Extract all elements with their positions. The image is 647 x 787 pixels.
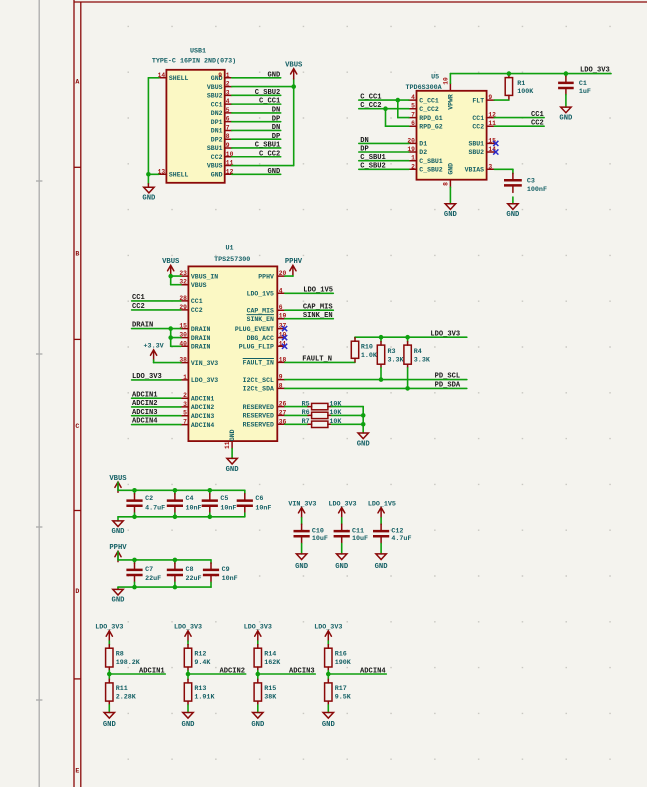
wire VBUS bus top [118,482,245,490]
svg-text:GND: GND [142,194,156,202]
svg-text:D2: D2 [419,149,427,156]
svg-text:DBG_ACC: DBG_ACC [247,335,274,342]
wire net CC1 [132,300,181,302]
wire net ADCIN3 [258,673,316,675]
svg-text:R10: R10 [361,343,373,351]
capacitor C11 10uF [334,518,368,544]
svg-text:GND: GND [447,163,454,175]
svg-text:CC1: CC1 [191,298,203,305]
svg-text:5: 5 [411,103,415,110]
capacitor C3 100nF [504,173,547,194]
wire net FAULT_N [285,361,355,363]
svg-text:10K: 10K [329,400,342,408]
svg-text:4: 4 [411,94,415,101]
svg-text:ADCIN3: ADCIN3 [191,413,215,420]
svg-text:3: 3 [183,401,187,408]
power VBUS cap bank [109,475,127,493]
wire net C_CC1 to U5 [359,99,409,101]
svg-text:C_SBU2: C_SBU2 [360,163,386,171]
svg-text:CC2: CC2 [191,307,203,314]
power VBUS [285,61,303,79]
power PPHV cap bank [109,544,127,562]
junction top bus [173,558,178,563]
wire +3.3V to VIN_3V3 [154,360,181,363]
wire net DN to U5 [359,142,409,144]
svg-text:DP1: DP1 [211,119,223,126]
resistor R4 3.3K [404,337,431,388]
capacitor C5 10nF [202,490,237,517]
svg-text:5: 5 [183,410,187,417]
capacitor C6 10nF [237,490,272,517]
svg-text:C_SBU2: C_SBU2 [419,167,443,174]
svg-text:CC2: CC2 [531,120,544,128]
resistor R13 1.91K [184,674,215,713]
ground GND VBUS bank [112,517,126,536]
svg-text:VIN_3V3: VIN_3V3 [191,360,218,367]
wire pin3 USB1 to net label C_SBU2 [232,94,281,96]
svg-text:SBU1: SBU1 [207,145,223,152]
svg-text:C6: C6 [255,495,263,503]
wire pin1 USB1 to net label GND [232,77,281,79]
svg-text:LDO_3V3: LDO_3V3 [95,624,123,632]
svg-text:CC1: CC1 [472,115,484,122]
svg-text:GND: GND [444,211,458,219]
svg-text:LDO_3V3: LDO_3V3 [244,624,272,632]
wire net ADCIN4 [132,424,181,426]
svg-text:A: A [75,79,79,86]
no-connect PLUG_FLIP [282,344,287,349]
svg-text:1.91K: 1.91K [194,694,215,702]
junction ADCIN4 [326,672,331,677]
svg-text:VBUS: VBUS [162,258,180,266]
svg-text:9: 9 [279,374,283,381]
svg-text:10uF: 10uF [352,535,368,543]
svg-text:VBUS: VBUS [207,84,223,91]
svg-text:R17: R17 [335,685,347,693]
svg-text:TYPE-C 16PIN 2ND(073): TYPE-C 16PIN 2ND(073) [152,58,236,66]
power LDO_3V3 ADCIN3 divider [244,624,272,642]
svg-text:R3: R3 [388,348,396,356]
svg-text:R6: R6 [302,409,310,417]
svg-text:10nF: 10nF [220,505,236,513]
svg-text:LDO_1V5: LDO_1V5 [368,500,396,508]
svg-text:C_CC2: C_CC2 [360,102,381,110]
svg-text:RPD_G1: RPD_G1 [419,115,443,122]
svg-text:10uF: 10uF [312,535,328,543]
wire net C_SBU2 to U5 [359,168,409,170]
svg-text:100nF: 100nF [527,186,547,194]
power PPHV [285,258,303,276]
svg-text:9: 9 [226,142,230,149]
svg-text:C_CC1: C_CC1 [360,94,381,102]
svg-text:R11: R11 [116,685,128,693]
svg-text:CC2: CC2 [132,303,145,311]
svg-text:ADCIN1: ADCIN1 [139,667,165,675]
junction R6 [361,413,366,418]
svg-text:9.5K: 9.5K [335,694,352,702]
svg-text:FLT: FLT [472,97,484,104]
ground GND C10 [295,544,309,571]
svg-text:U1: U1 [225,244,233,252]
svg-text:R15: R15 [264,685,276,693]
svg-text:162K: 162K [264,659,281,667]
svg-text:10nF: 10nF [222,575,238,583]
wire pin9 USB1 to net label C_SBU1 [232,147,281,149]
ground GND USB1 shell [142,184,156,203]
svg-text:10: 10 [443,77,450,85]
wire VPWR to LDO_3V3 rail [450,74,611,84]
svg-text:7: 7 [183,419,187,426]
wire net ADCIN1 [109,673,165,675]
svg-text:2: 2 [226,81,230,88]
wire RPD_G2 tie to C_CC2 [386,109,409,127]
ground GND C12 [375,544,389,571]
capacitor C1 1uF [558,74,591,97]
svg-text:4.7uF: 4.7uF [145,505,165,513]
junction R7 [361,422,366,427]
svg-text:4: 4 [226,98,230,105]
svg-text:PPHV: PPHV [258,273,274,280]
junction top bus [173,488,178,493]
svg-text:6: 6 [279,304,283,311]
svg-text:LDO_1V5: LDO_1V5 [247,291,274,298]
svg-text:2: 2 [411,163,415,170]
svg-text:22uF: 22uF [186,575,202,583]
svg-text:10K: 10K [329,418,342,426]
capacitor C12 4.7uF [373,518,411,544]
svg-text:RESERVED: RESERVED [243,422,274,429]
svg-text:GND: GND [335,563,349,571]
svg-text:C: C [75,423,79,430]
svg-text:LDO_3V3: LDO_3V3 [328,500,356,508]
wire CC1 from U5 [494,117,544,119]
junction bottom bus [132,515,137,520]
no-connect SBU2 [493,149,498,154]
svg-text:SHELL: SHELL [169,75,189,82]
svg-text:GND: GND [229,429,236,441]
svg-text:PLUG_EVENT: PLUG_EVENT [235,326,274,333]
junction bottom bus [173,585,178,590]
svg-text:4: 4 [279,287,283,294]
wire VBUS vertical [293,79,295,166]
svg-text:R5: R5 [302,400,310,408]
svg-text:CC1: CC1 [531,111,544,119]
junction R4 bottom PD_SDA [405,386,410,391]
junction DRAIN pin15 [168,326,173,331]
svg-text:LDO_3V3: LDO_3V3 [174,624,202,632]
svg-text:ADCIN1: ADCIN1 [191,395,215,402]
svg-text:R14: R14 [264,650,276,658]
svg-text:2: 2 [183,392,187,399]
svg-text:TPD6S300A: TPD6S300A [406,84,443,92]
svg-text:SINK_EN: SINK_EN [247,316,274,323]
capacitor C8 22uF [167,560,202,587]
ground GND U5 [444,187,458,219]
junction ADCIN2 [186,672,191,677]
svg-text:1.0K: 1.0K [361,352,378,360]
junction bottom bus [173,515,178,520]
svg-text:SBU2: SBU2 [468,149,484,156]
wire GND bus bottom [118,586,211,588]
svg-text:ADCIN2: ADCIN2 [191,404,215,411]
ground GND C3 [506,197,520,219]
svg-text:7: 7 [226,124,230,131]
junction R4 top [405,335,410,340]
svg-text:6: 6 [226,116,230,123]
svg-text:D: D [75,588,79,595]
svg-text:8: 8 [226,133,230,140]
resistor R11 2.28K [106,674,137,713]
wire net LDO_3V3 pin1 [132,379,181,381]
resistor R14 162K [254,641,281,674]
svg-text:GND: GND [322,721,336,729]
svg-text:9: 9 [218,72,222,79]
svg-text:ADCIN3: ADCIN3 [132,409,158,417]
svg-text:ADCIN3: ADCIN3 [289,667,315,675]
IC U1 TPS257300 [179,244,286,449]
ground GND U1 [226,449,240,474]
power LDO_3V3 [328,500,356,517]
svg-text:C3: C3 [527,178,535,186]
svg-text:GND: GND [112,597,126,605]
svg-text:D1: D1 [419,141,427,148]
svg-text:GND: GND [268,71,281,79]
resistor R5 10K [285,400,363,409]
svg-text:3: 3 [488,163,492,170]
svg-text:VBIAS: VBIAS [465,167,485,174]
power LDO_3V3 ADCIN2 divider [174,624,202,642]
svg-text:SBU2: SBU2 [207,93,223,100]
wire pin6 USB1 to net label DP [232,121,281,123]
svg-text:VBUS: VBUS [207,163,223,170]
wire pin8 USB1 to net label DP [232,138,281,140]
wire CC2 from U5 [494,125,544,127]
wire net C_CC2 to U5 [359,108,409,110]
wire net ADCIN3 [132,415,181,417]
power VIN_3V3 [288,500,316,517]
svg-text:8: 8 [279,382,283,389]
svg-text:DP2: DP2 [211,136,223,143]
svg-text:C1: C1 [579,80,587,88]
junction top bus [132,558,137,563]
svg-text:I2Ct_SDA: I2Ct_SDA [243,386,274,393]
svg-text:USB1: USB1 [190,48,206,56]
svg-text:R8: R8 [116,650,124,658]
svg-text:1uF: 1uF [579,88,591,96]
power VBUS U1 [162,258,180,276]
wire pin12 USB1 to net label GND [232,173,281,175]
wire R5-R7 to ground [362,407,364,433]
svg-text:GND: GND [357,440,371,448]
ground GND PPHV bank [112,587,126,605]
resistor R1 100K [505,74,534,99]
svg-text:U5: U5 [431,73,439,81]
svg-text:R12: R12 [194,650,206,658]
wire FLT to R1 [494,74,509,101]
svg-text:ADCIN2: ADCIN2 [132,400,158,408]
svg-text:38K: 38K [264,694,277,702]
junction R3 bottom PD_SCL [379,377,384,382]
capacitor C4 10nF [167,490,202,517]
wire net ADCIN2 [188,673,246,675]
svg-text:C_CC2: C_CC2 [419,106,439,113]
svg-text:PD_SCL: PD_SCL [435,373,461,381]
wire USB1 pin11 [232,165,294,167]
power +3.3V [144,343,164,361]
svg-text:8: 8 [442,182,449,186]
svg-text:SHELL: SHELL [169,172,189,179]
wire net ADCIN2 [132,406,181,408]
svg-text:5: 5 [226,107,230,114]
svg-text:10nF: 10nF [186,505,202,513]
svg-text:SBU1: SBU1 [468,141,484,148]
svg-text:LDO_3V3: LDO_3V3 [430,330,460,338]
svg-text:LDO_3V3: LDO_3V3 [580,67,610,75]
svg-text:C7: C7 [145,566,153,574]
no-connect PLUG_EVENT [282,326,287,331]
junction R3 top [379,335,384,340]
junction VBUS pin2 [291,84,296,89]
svg-text:C_SBU2: C_SBU2 [255,89,281,97]
svg-text:DN: DN [360,137,369,145]
ground GND ADCIN2 divider [182,713,196,729]
svg-text:R1: R1 [517,80,525,88]
svg-text:C_CC2: C_CC2 [259,150,280,158]
svg-text:GND: GND [506,211,520,219]
svg-text:B: B [75,251,79,258]
wire pin5 USB1 to net label DN [232,112,281,114]
svg-text:CAP_MIS: CAP_MIS [247,307,274,314]
svg-text:C_SBU1: C_SBU1 [419,158,443,165]
junction DRAIN pin30 [168,335,173,340]
svg-text:CC2: CC2 [211,154,223,161]
svg-text:ADCIN2: ADCIN2 [219,667,245,675]
junction bottom bus [208,515,213,520]
wire pin7 USB1 to net label DN [232,129,281,131]
wire net PD_SCL [285,379,467,381]
ground GND ADCIN1 divider [103,713,117,729]
wire net DP to U5 [359,151,409,153]
connector USB1 TYPE-C 16PIN 2ND(073) [152,48,236,183]
svg-text:9: 9 [488,94,492,101]
svg-text:ADCIN1: ADCIN1 [132,391,158,399]
wire pin10 USB1 to net label C_CC2 [232,156,281,158]
svg-text:4.7uF: 4.7uF [391,535,411,543]
junction top bus [208,488,213,493]
svg-text:DN1: DN1 [211,128,223,135]
svg-text:R7: R7 [302,418,310,426]
resistor R3 3.3K [377,337,404,379]
svg-text:GND: GND [103,721,117,729]
junction C1 top [564,71,569,76]
junction bottom bus [132,585,137,590]
wire GND bus bottom [118,516,245,518]
resistor R8 198.2K [106,641,141,674]
svg-text:ADCIN4: ADCIN4 [132,418,158,426]
svg-text:CC1: CC1 [132,294,145,302]
svg-text:C5: C5 [220,495,228,503]
capacitor C9 10nF [203,560,238,587]
junction VBUS_IN [168,274,173,279]
power LDO_1V5 [368,500,396,517]
wire net CAP_MIS [285,309,334,311]
svg-text:3: 3 [226,89,230,96]
svg-text:DN: DN [272,124,281,132]
svg-text:SINK_EN: SINK_EN [303,312,333,320]
junction R1 top [507,71,512,76]
svg-text:1: 1 [183,374,187,381]
svg-text:CC1: CC1 [211,101,223,108]
wire PPHV bus top [118,552,211,560]
svg-text:VBUS: VBUS [285,61,303,69]
svg-text:C4: C4 [186,495,194,503]
svg-text:VPWR: VPWR [447,94,454,110]
svg-text:3.3K: 3.3K [388,356,405,364]
svg-text:GND: GND [375,563,389,571]
wire VBUS to VBUS_IN/VBUS [171,276,181,285]
svg-text:1: 1 [226,72,230,79]
svg-text:VIN_3V3: VIN_3V3 [288,500,316,508]
resistor R10 1.0K [351,337,378,362]
svg-text:DN2: DN2 [211,110,223,117]
svg-text:22uF: 22uF [145,575,161,583]
svg-text:198.2K: 198.2K [116,659,141,667]
svg-text:RESERVED: RESERVED [243,413,274,420]
svg-text:100K: 100K [517,88,534,96]
svg-text:C9: C9 [222,566,230,574]
ground GND R5-R7 [357,433,371,448]
wire net CC2 [132,309,181,311]
wire PPHV [285,275,293,277]
svg-text:10nF: 10nF [255,505,271,513]
svg-text:7: 7 [411,112,415,119]
capacitor C2 4.7uF [126,490,165,517]
ground GND ADCIN4 divider [322,713,336,729]
no-connect DBG_ACC [282,335,287,340]
svg-text:1: 1 [411,155,415,162]
svg-text:DRAIN: DRAIN [132,322,153,330]
wire net PD_SDA [285,387,467,389]
svg-text:TPS257300: TPS257300 [214,256,250,264]
svg-text:DP: DP [360,145,369,153]
wire net C_SBU1 to U5 [359,160,409,162]
svg-text:LDO_1V5: LDO_1V5 [303,286,333,294]
junction SHELL pin13 [146,172,151,177]
wire net ADCIN1 [132,397,181,399]
capacitor C10 10uF [294,518,328,544]
ground GND ADCIN3 divider [251,713,265,729]
svg-text:DRAIN: DRAIN [191,335,211,342]
svg-text:GND: GND [211,172,223,179]
svg-text:DN: DN [272,106,281,114]
svg-text:3.3K: 3.3K [414,356,431,364]
svg-text:PLUG_FLIP: PLUG_FLIP [239,344,274,351]
svg-text:ADCIN4: ADCIN4 [191,422,215,429]
svg-text:VBUS: VBUS [191,282,207,289]
svg-text:E: E [75,768,79,775]
svg-text:GND: GND [268,168,281,176]
wire pin4 USB1 to net label C_CC1 [232,103,281,105]
svg-text:ADCIN4: ADCIN4 [360,667,386,675]
svg-text:9.4K: 9.4K [194,659,211,667]
svg-text:PD_SDA: PD_SDA [435,382,461,390]
wire USB1 SHELL left [148,78,159,184]
svg-text:PPHV: PPHV [285,258,303,266]
svg-text:DRAIN: DRAIN [191,326,211,333]
wire net SINK_EN [285,318,334,320]
svg-text:FAULT_IN: FAULT_IN [243,360,274,367]
svg-text:LDO_3V3: LDO_3V3 [314,624,342,632]
